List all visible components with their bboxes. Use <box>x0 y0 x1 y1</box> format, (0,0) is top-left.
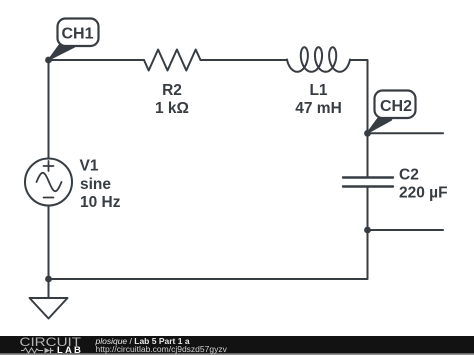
wire capacitor to bottom-right corner and bottom wire <box>49 187 368 280</box>
V1 minus sign <box>44 197 54 199</box>
V1 sine wave <box>37 173 62 191</box>
wire node to ground <box>48 279 50 298</box>
CH2 probe callout box <box>375 91 416 119</box>
inductor L1 <box>287 47 350 72</box>
svg-text:sine: sine <box>80 176 111 193</box>
svg-text:CH2: CH2 <box>380 98 412 115</box>
wire inductor to top-right corner and down to capacitor <box>350 60 368 178</box>
svg-text:http://circuitlab.com/cj9dszd5: http://circuitlab.com/cj9dszd57gyzv <box>96 344 228 354</box>
svg-text:1 kΩ: 1 kΩ <box>155 100 189 117</box>
svg-text:V1: V1 <box>80 158 99 175</box>
footer bar <box>0 336 474 355</box>
svg-text:L1: L1 <box>309 82 327 99</box>
capacitor C2 top plate <box>343 176 393 178</box>
svg-text:220 µF: 220 µF <box>399 185 448 202</box>
node B CH2 junction dot <box>364 130 371 137</box>
svg-text:CH1: CH1 <box>61 26 93 43</box>
wire top-left node to resistor <box>49 59 145 61</box>
svg-text:LAB: LAB <box>57 345 83 355</box>
capacitor C2 bottom plate <box>343 185 393 187</box>
wire V1 to bottom node <box>48 206 50 280</box>
svg-text:R2: R2 <box>162 82 182 99</box>
CH2 probe callout tail <box>367 118 392 133</box>
svg-text:10 Hz: 10 Hz <box>80 194 121 211</box>
wire CH2 stub lower <box>368 229 444 231</box>
wire resistor to inductor <box>201 59 288 61</box>
wire left vertical top (node to V1) <box>48 60 50 159</box>
svg-text:C2: C2 <box>399 167 419 184</box>
CH1 probe callout tail <box>49 45 75 60</box>
logo diode symbol <box>45 348 51 353</box>
logo resistor zigzag <box>21 348 43 353</box>
node D bottom-left junction dot <box>45 276 52 283</box>
V1 plus sign <box>44 161 54 171</box>
wire CH2 stub upper <box>368 132 444 134</box>
node C lower-right junction dot <box>364 227 371 234</box>
svg-text:47 mH: 47 mH <box>295 100 342 117</box>
resistor R2 <box>144 50 201 71</box>
node A top-left junction dot <box>45 57 52 64</box>
voltage source V1 circle <box>25 159 72 206</box>
CH1 probe callout box <box>58 19 99 47</box>
ground symbol <box>30 298 68 319</box>
